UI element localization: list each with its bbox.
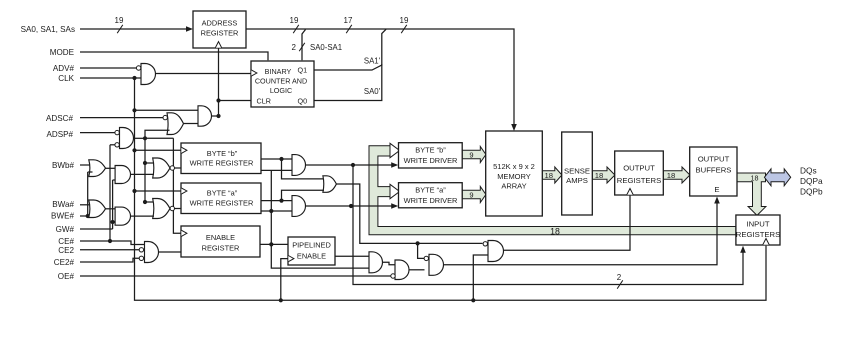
wire G10 output to G11 (383, 262, 396, 265)
svg-text:DQPa: DQPa (800, 176, 823, 186)
gate G10 AND (pipelined, enable) (369, 252, 382, 273)
wire G6b to G8 (131, 215, 155, 217)
wire GW# line to riser (80, 228, 113, 230)
net DQs label (800, 166, 817, 176)
wire G1 output to counter clock (156, 73, 251, 75)
wire BWE# line (80, 214, 94, 216)
svg-text:CE2#: CE2# (54, 258, 75, 267)
output buffers box (690, 147, 737, 196)
wire CE2# to gate G9 (80, 258, 139, 262)
svg-text:COUNTER AND: COUNTER AND (255, 77, 307, 86)
net CE2 label (58, 246, 74, 255)
wire 19-bit address bus from address register to memory array (246, 29, 517, 131)
wire CE# to gate G9 (80, 239, 145, 245)
svg-text:17: 17 (344, 16, 353, 25)
wire CLK branch to gate G4 (135, 109, 199, 111)
gate G3 OR (ADSC#, G2) (163, 113, 184, 135)
wire byte a register second output (261, 210, 271, 212)
net CLK label (58, 74, 74, 83)
svg-text:DQs: DQs (800, 166, 817, 176)
wire G3 output to G4 (183, 123, 198, 125)
svg-text:OUTPUT: OUTPUT (698, 155, 730, 164)
svg-text:Q0: Q0 (298, 97, 308, 106)
gate G13 OR byte enable combine (323, 176, 337, 193)
wire byte b register second output to G12 (261, 169, 292, 171)
gate G9 AND chip enables (139, 242, 158, 263)
bus width 19 marker before memory (400, 16, 409, 33)
svg-text:WRITE DRIVER: WRITE DRIVER (404, 196, 458, 205)
gate G6b AND byte a (115, 207, 130, 225)
wire SA0 prime from Q0 to bus riser (314, 64, 382, 101)
wire byte b out branch to G13 (282, 159, 325, 179)
svg-text:ADSC#: ADSC# (46, 114, 73, 123)
net MODE label (50, 48, 75, 57)
svg-text:REGISTERS: REGISTERS (617, 176, 661, 185)
bus 18-bit output buffers to DQ pads and input registers (737, 173, 766, 215)
wire ADSP# to gate G2 (80, 132, 115, 134)
svg-text:ADSP#: ADSP# (46, 130, 73, 139)
bus 9-bit byte a write driver to memory (462, 187, 486, 203)
gate G14 AND byte a drive (292, 196, 305, 217)
svg-text:BYTE “a”: BYTE “a” (415, 186, 446, 195)
net GW# label (56, 225, 75, 234)
bus width 18 label on input bus (550, 227, 560, 237)
svg-text:ADV#: ADV# (53, 64, 75, 73)
wire clear branch to counter CLR (219, 100, 251, 102)
svg-text:BUFFERS: BUFFERS (696, 166, 732, 175)
bus width 19 marker before address register (115, 16, 124, 33)
bus 18-bit output registers to output buffers (663, 167, 690, 183)
svg-text:18: 18 (595, 171, 604, 180)
wire G14 output to byte a write driver (306, 203, 399, 209)
wire GW# riser (111, 180, 115, 229)
svg-text:WRITE REGISTER: WRITE REGISTER (190, 198, 254, 207)
net ADSP# label (46, 130, 73, 139)
gate G12 AND byte b drive (292, 155, 306, 176)
svg-text:E: E (714, 185, 719, 194)
wire G13 output byte-enable line (336, 184, 482, 245)
svg-text:GW#: GW# (56, 225, 75, 234)
svg-text:BYTE “b”: BYTE “b” (415, 146, 446, 155)
svg-text:18: 18 (545, 171, 554, 180)
wire CE# riser to gate G2 (110, 145, 115, 241)
svg-text:BINARY: BINARY (265, 67, 292, 76)
wire CLK distribution vertical and bottom clock rail (132, 78, 766, 302)
svg-text:BWE#: BWE# (51, 212, 74, 221)
wire byte a register Q output to G14 (261, 199, 292, 203)
net ADSC# label (46, 114, 73, 123)
wire N1 feed to enable register clock (173, 138, 181, 233)
svg-text:WRITE DRIVER: WRITE DRIVER (404, 156, 458, 165)
wire pipelined enable output to gate G10 (335, 255, 369, 257)
svg-text:19: 19 (400, 16, 409, 25)
bus 18-bit input data from input registers to write drivers (369, 146, 736, 235)
svg-text:REGISTER: REGISTER (201, 29, 239, 38)
svg-text:18: 18 (751, 174, 759, 183)
gate G8 OR byte a write (153, 199, 170, 219)
sense amps box (562, 132, 593, 215)
svg-text:512K x 9 x 2: 512K x 9 x 2 (493, 162, 535, 171)
svg-text:CLK: CLK (58, 74, 74, 83)
bus width 18 label registers out (667, 171, 676, 180)
binary counter and logic box (251, 61, 314, 107)
input registers box (736, 215, 780, 245)
svg-text:SA0-SA1: SA0-SA1 (310, 43, 342, 52)
svg-text:CE2: CE2 (58, 246, 74, 255)
svg-text:OE#: OE# (58, 272, 75, 281)
net SA1' label (364, 57, 381, 66)
svg-text:BYTE “b”: BYTE “b” (207, 149, 238, 158)
wire node N1 to gate G3 input (145, 130, 170, 138)
wire byte-enable branch to gate G16 (418, 243, 425, 258)
wire SA bus into address register (80, 26, 193, 32)
svg-text:Q1: Q1 (298, 66, 308, 75)
gate G16 AND output enable (424, 254, 443, 275)
svg-text:BYTE “a”: BYTE “a” (207, 189, 238, 198)
svg-text:WRITE REGISTER: WRITE REGISTER (190, 159, 254, 168)
wire G11 output to gate G16 (409, 269, 425, 271)
wire CLK branch to byte b register clock (135, 149, 182, 151)
svg-text:MODE: MODE (50, 48, 75, 57)
gate G1 AND (ADV#, CLK) (136, 64, 155, 85)
wire BWa# to gate (80, 204, 92, 206)
svg-text:LOGIC: LOGIC (270, 86, 292, 95)
wire address register clock vertical (216, 48, 220, 117)
wire N1 branch to gate G7 (145, 162, 156, 164)
byte b write driver box (399, 143, 463, 168)
bus width 2 marker (617, 273, 623, 289)
bus width 2 marker SA0-SA1 (292, 43, 343, 52)
wire OE# to gate G11 (80, 275, 391, 277)
bus width 9 label byte a (469, 190, 473, 199)
gate G2 AND (ADSP#, CE#) inverted inputs (115, 128, 134, 149)
wire GW# branch to G6b (113, 221, 116, 223)
net CE# label (58, 237, 74, 246)
svg-text:9: 9 (469, 150, 473, 159)
byte a write register box (181, 183, 261, 214)
wire G7 inverted output to byte b register (170, 166, 181, 170)
wire CLK branch to byte a register clock (135, 190, 182, 192)
wire G2 output to node N1 (134, 136, 148, 140)
wire CE2 to gate G9 (80, 249, 139, 251)
svg-text:18: 18 (667, 171, 676, 180)
wire SA1 prime from Q1 to bus riser (314, 29, 386, 70)
wire byte register status vertical (269, 170, 369, 268)
wire ADV# to gate G1 (80, 67, 136, 69)
wire G5 to G5b (106, 167, 116, 169)
svg-text:REGISTERS: REGISTERS (736, 230, 780, 239)
bidirectional DQ bus arrow (764, 169, 790, 186)
gate G7 OR byte b write (153, 158, 170, 178)
svg-text:19: 19 (115, 16, 124, 25)
bus 18-bit memory to sense amps (542, 167, 562, 183)
gate G5 OR (BWb#, BWE#) (89, 160, 106, 177)
bus width 18 label output bus (751, 174, 759, 183)
byte b write register box (181, 143, 261, 174)
net CE2# label (54, 258, 75, 267)
bus width 18 label memory out (545, 171, 554, 180)
pipelined enable box (288, 237, 335, 265)
svg-text:INPUT: INPUT (746, 220, 769, 229)
svg-text:2: 2 (292, 43, 297, 52)
net DQPb label (800, 187, 823, 197)
wire ADSC# to gate G3 (80, 117, 163, 119)
wire GW# branch to G5b (113, 179, 116, 181)
wire CLK to gate G1 (80, 76, 141, 80)
svg-text:CLR: CLR (257, 97, 271, 106)
wire BWb# to gate (80, 164, 92, 166)
svg-text:AMPS: AMPS (566, 176, 588, 185)
output registers box (615, 151, 664, 195)
svg-text:ENABLE: ENABLE (297, 252, 326, 261)
memory array box (486, 131, 543, 216)
svg-text:SA1': SA1' (364, 57, 381, 66)
enable register box (181, 226, 260, 257)
svg-text:9: 9 (469, 190, 473, 199)
white arrowhead into byte b write driver (390, 143, 400, 157)
bus 9-bit byte b write driver to memory (462, 147, 486, 163)
gate G11 AND (G10, OE#) (391, 260, 409, 280)
svg-text:SA0, SA1, SAs: SA0, SA1, SAs (21, 25, 75, 34)
wire BWE# riser to G5 (86, 172, 93, 218)
wire G9 output to enable register (159, 251, 182, 253)
wire G15 output to output registers clock (504, 196, 631, 251)
svg-text:SENSE: SENSE (564, 167, 590, 176)
wire G6 to G6b (106, 208, 116, 210)
wire G4 output to register clock node (212, 114, 221, 118)
wire byte a out branch to G13 (282, 190, 325, 200)
wire clock rail to pipelined enable clock (281, 259, 288, 301)
wire G12 output to byte b write driver (306, 162, 399, 168)
wire G8 inverted output to byte a register (170, 206, 181, 210)
wire G5b to G7 (131, 173, 155, 175)
svg-text:OUTPUT: OUTPUT (623, 164, 655, 173)
gate G5b AND byte b (115, 166, 130, 184)
net BWE# label (51, 212, 74, 221)
svg-text:18: 18 (550, 227, 560, 237)
wire byte b register Q output to G12 (261, 157, 292, 161)
net BWb# label (52, 161, 75, 170)
net SA0' label (364, 87, 381, 96)
bus width 17 marker (344, 16, 353, 33)
gate G4 AND (CLK, G3) (198, 106, 212, 126)
net OE# label (58, 272, 75, 281)
svg-text:19: 19 (290, 16, 299, 25)
svg-text:ADDRESS: ADDRESS (202, 19, 238, 28)
wire node N1 vertical to byte gates (143, 138, 174, 204)
svg-text:ARRAY: ARRAY (501, 182, 526, 191)
address register box (193, 11, 246, 48)
net ADV# label (53, 64, 75, 73)
net BWa# label (52, 200, 74, 209)
net SA0/SA1/SAs input label (21, 25, 75, 34)
svg-text:MEMORY: MEMORY (497, 172, 531, 181)
bus width 18 label sense out (595, 171, 604, 180)
wire clock rail branch to G15 (473, 255, 488, 300)
wire byte write enable bus (2) to input registers (353, 165, 746, 285)
wire SA0-SA1 tap to binary counter (302, 30, 306, 61)
svg-text:CE#: CE# (58, 237, 74, 246)
svg-text:SA0': SA0' (364, 87, 381, 96)
byte a write driver box (399, 183, 463, 208)
svg-text:BWb#: BWb# (52, 161, 75, 170)
gate G6 OR (BWa#, BWE#) (89, 200, 106, 218)
svg-text:BWa#: BWa# (52, 200, 74, 209)
bus width 19 marker after address register (290, 16, 299, 33)
white arrowhead into byte a write driver (390, 184, 400, 198)
wire enable register output to pipelined enable (260, 243, 288, 245)
wire MODE to binary counter (80, 52, 268, 60)
net DQPa label (800, 176, 823, 186)
svg-text:DQPb: DQPb (800, 187, 823, 197)
svg-text:2: 2 (617, 273, 622, 282)
svg-text:ENABLE: ENABLE (206, 233, 235, 242)
svg-text:PIPELINED: PIPELINED (292, 241, 331, 250)
svg-text:REGISTER: REGISTER (202, 244, 240, 253)
gate G15 AND output register clock (483, 241, 503, 262)
bus 18-bit sense amps to output registers (592, 167, 615, 183)
wire G16 output to output buffers enable (444, 197, 720, 265)
bus width 9 label byte b (469, 150, 473, 159)
wire N1 branch to gate G8 (145, 201, 156, 203)
wire status branch to G14 (271, 210, 292, 212)
